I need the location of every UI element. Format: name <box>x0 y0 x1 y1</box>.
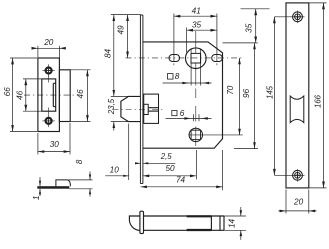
svg-text:1: 1 <box>32 196 41 201</box>
follower centerline horizontal <box>126 57 243 59</box>
square hole 6mm <box>191 130 200 139</box>
dim 35 (follower) <box>186 28 188 53</box>
latch window <box>290 96 304 123</box>
svg-text:35: 35 <box>192 21 202 30</box>
latch centerline <box>113 109 164 111</box>
spring section bottom <box>187 229 212 231</box>
bolt shaft bottom <box>144 229 225 231</box>
bolt shaft end <box>223 216 225 230</box>
svg-text:74: 74 <box>176 175 186 184</box>
spring section top <box>187 215 212 217</box>
faceplate top extension <box>111 14 141 16</box>
dim 84 <box>113 15 115 97</box>
lock case outline <box>143 42 223 148</box>
lower follower centerline <box>188 134 243 136</box>
dim 46 (lip) <box>70 69 90 71</box>
svg-text:30: 30 <box>50 140 60 149</box>
centerline dash <box>195 89 197 99</box>
latch bolt (case view) <box>121 96 141 121</box>
dim 1 (thickness) <box>39 177 41 186</box>
dim 8 (lip height) <box>69 179 93 181</box>
latch stem <box>148 107 158 109</box>
bent lip profile <box>56 180 71 187</box>
svg-text:66: 66 <box>3 87 12 97</box>
horizontal centerline <box>24 94 78 96</box>
screw hole center y=120.9 <box>46 118 52 124</box>
bolt divider 1 <box>210 216 212 230</box>
bolt divider 2 <box>219 216 221 230</box>
dim 46 (cutout) <box>23 78 42 80</box>
square spindle hole 8mm <box>191 53 201 63</box>
dim 20 (top) <box>37 46 39 58</box>
svg-text:96: 96 <box>242 88 251 98</box>
faceplate screw hole y=16.8 <box>293 12 303 22</box>
svg-text:23,5: 23,5 <box>107 98 116 115</box>
svg-text:46: 46 <box>16 90 25 100</box>
dim 10 (bolt throw) <box>128 124 130 181</box>
bolt shaft top <box>144 215 225 217</box>
svg-text:49: 49 <box>116 25 125 35</box>
lower follower (WC) <box>189 128 202 141</box>
svg-text:8: 8 <box>75 159 84 164</box>
cutout top center tick <box>48 75 50 82</box>
dim 50 (backset) <box>195 150 197 179</box>
hole centerline <box>274 174 304 176</box>
bolt nose <box>129 216 140 230</box>
svg-text:14: 14 <box>227 219 236 229</box>
follower centerline vertical upper <box>195 31 197 53</box>
screw hole center y=70.5 <box>46 68 52 74</box>
dim 23,5 <box>113 122 115 131</box>
screw slot right <box>212 55 223 62</box>
case bottom extension <box>234 148 258 150</box>
dim 14 (bolt height) <box>224 215 246 217</box>
case top extension <box>223 42 258 44</box>
dim 30 (bottom) <box>37 133 39 154</box>
svg-text:46: 46 <box>76 89 85 99</box>
svg-text:20: 20 <box>43 38 54 47</box>
dim 70 (follower to WC) <box>239 58 241 135</box>
svg-text:70: 70 <box>226 85 235 95</box>
dim 41 <box>173 14 175 63</box>
strike plate body <box>38 58 60 132</box>
svg-text:8: 8 <box>175 72 180 81</box>
svg-text:84: 84 <box>103 49 112 59</box>
centerline through WC follower <box>195 127 197 147</box>
dim 2,5 (faceplate thickness) <box>135 162 140 164</box>
dim 66 <box>10 57 37 59</box>
bolt collar <box>140 211 144 233</box>
svg-text:6: 6 <box>180 109 185 118</box>
follower centerline vertical mid <box>195 64 197 86</box>
svg-text:166: 166 <box>313 94 322 108</box>
svg-text:35: 35 <box>244 23 253 33</box>
dim 35 (plate above case) <box>241 8 270 10</box>
strike plate lip (bent tab) <box>59 70 70 122</box>
svg-text:50: 50 <box>165 164 175 173</box>
latch cutout <box>42 79 56 111</box>
follower (square spindle hub) <box>186 48 207 69</box>
svg-text:10: 10 <box>110 166 120 175</box>
dim 166 (plate height) <box>309 2 327 4</box>
svg-text:41: 41 <box>192 6 201 15</box>
centerline dash 2 <box>195 106 197 122</box>
bolt extension lines <box>111 95 129 97</box>
latch housing <box>144 94 159 123</box>
faceplate screw hole y=175.3 <box>293 170 303 180</box>
screw slot left <box>169 55 180 62</box>
latch tail block <box>144 104 149 114</box>
hole centerline <box>274 16 304 18</box>
dim 49 <box>127 15 129 58</box>
faceplate front view <box>286 3 309 188</box>
cutout bottom center tick <box>48 108 50 115</box>
dim 145 (screw centers) <box>273 17 275 176</box>
dim 20 (plate width) <box>285 190 287 214</box>
dim 74 (case depth) <box>222 150 224 190</box>
cutout inner tab edge <box>52 83 54 106</box>
dim square 6 <box>192 114 194 121</box>
svg-text:20: 20 <box>293 198 304 207</box>
dim square 8 <box>190 49 192 85</box>
svg-text:145: 145 <box>265 85 274 99</box>
lock case faceplate (edge view) <box>139 15 141 184</box>
svg-text:2,5: 2,5 <box>160 152 173 161</box>
strike plate side profile <box>37 186 69 189</box>
dim 96 (case height) <box>254 43 256 149</box>
